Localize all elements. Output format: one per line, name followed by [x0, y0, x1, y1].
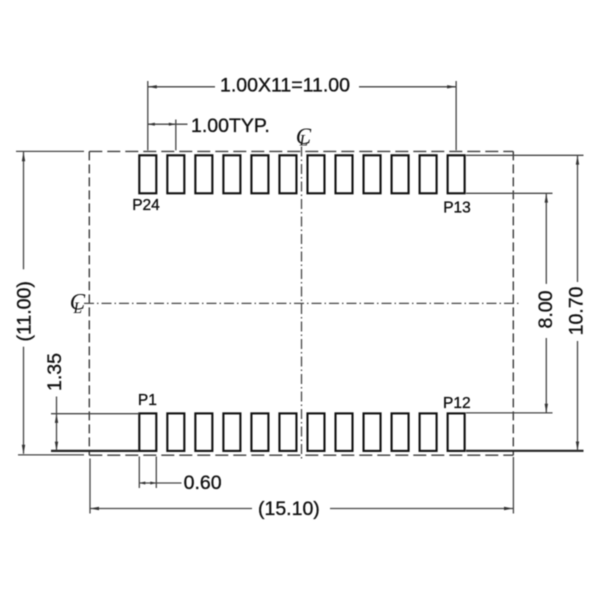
svg-text:P24: P24	[132, 197, 160, 214]
svg-text:10.70: 10.70	[566, 286, 588, 335]
svg-text:L: L	[73, 300, 83, 317]
svg-text:(15.10): (15.10)	[258, 498, 320, 520]
svg-text:8.00: 8.00	[535, 290, 557, 328]
svg-text:P12: P12	[443, 395, 471, 412]
svg-text:P1: P1	[138, 392, 157, 409]
svg-text:1.35: 1.35	[44, 353, 66, 391]
svg-text:L: L	[299, 133, 309, 150]
svg-text:P13: P13	[443, 200, 471, 217]
svg-text:(11.00): (11.00)	[14, 281, 36, 341]
svg-text:1.00TYP.: 1.00TYP.	[191, 115, 270, 137]
svg-text:0.60: 0.60	[184, 472, 222, 494]
svg-text:1.00X11=11.00: 1.00X11=11.00	[220, 75, 350, 97]
